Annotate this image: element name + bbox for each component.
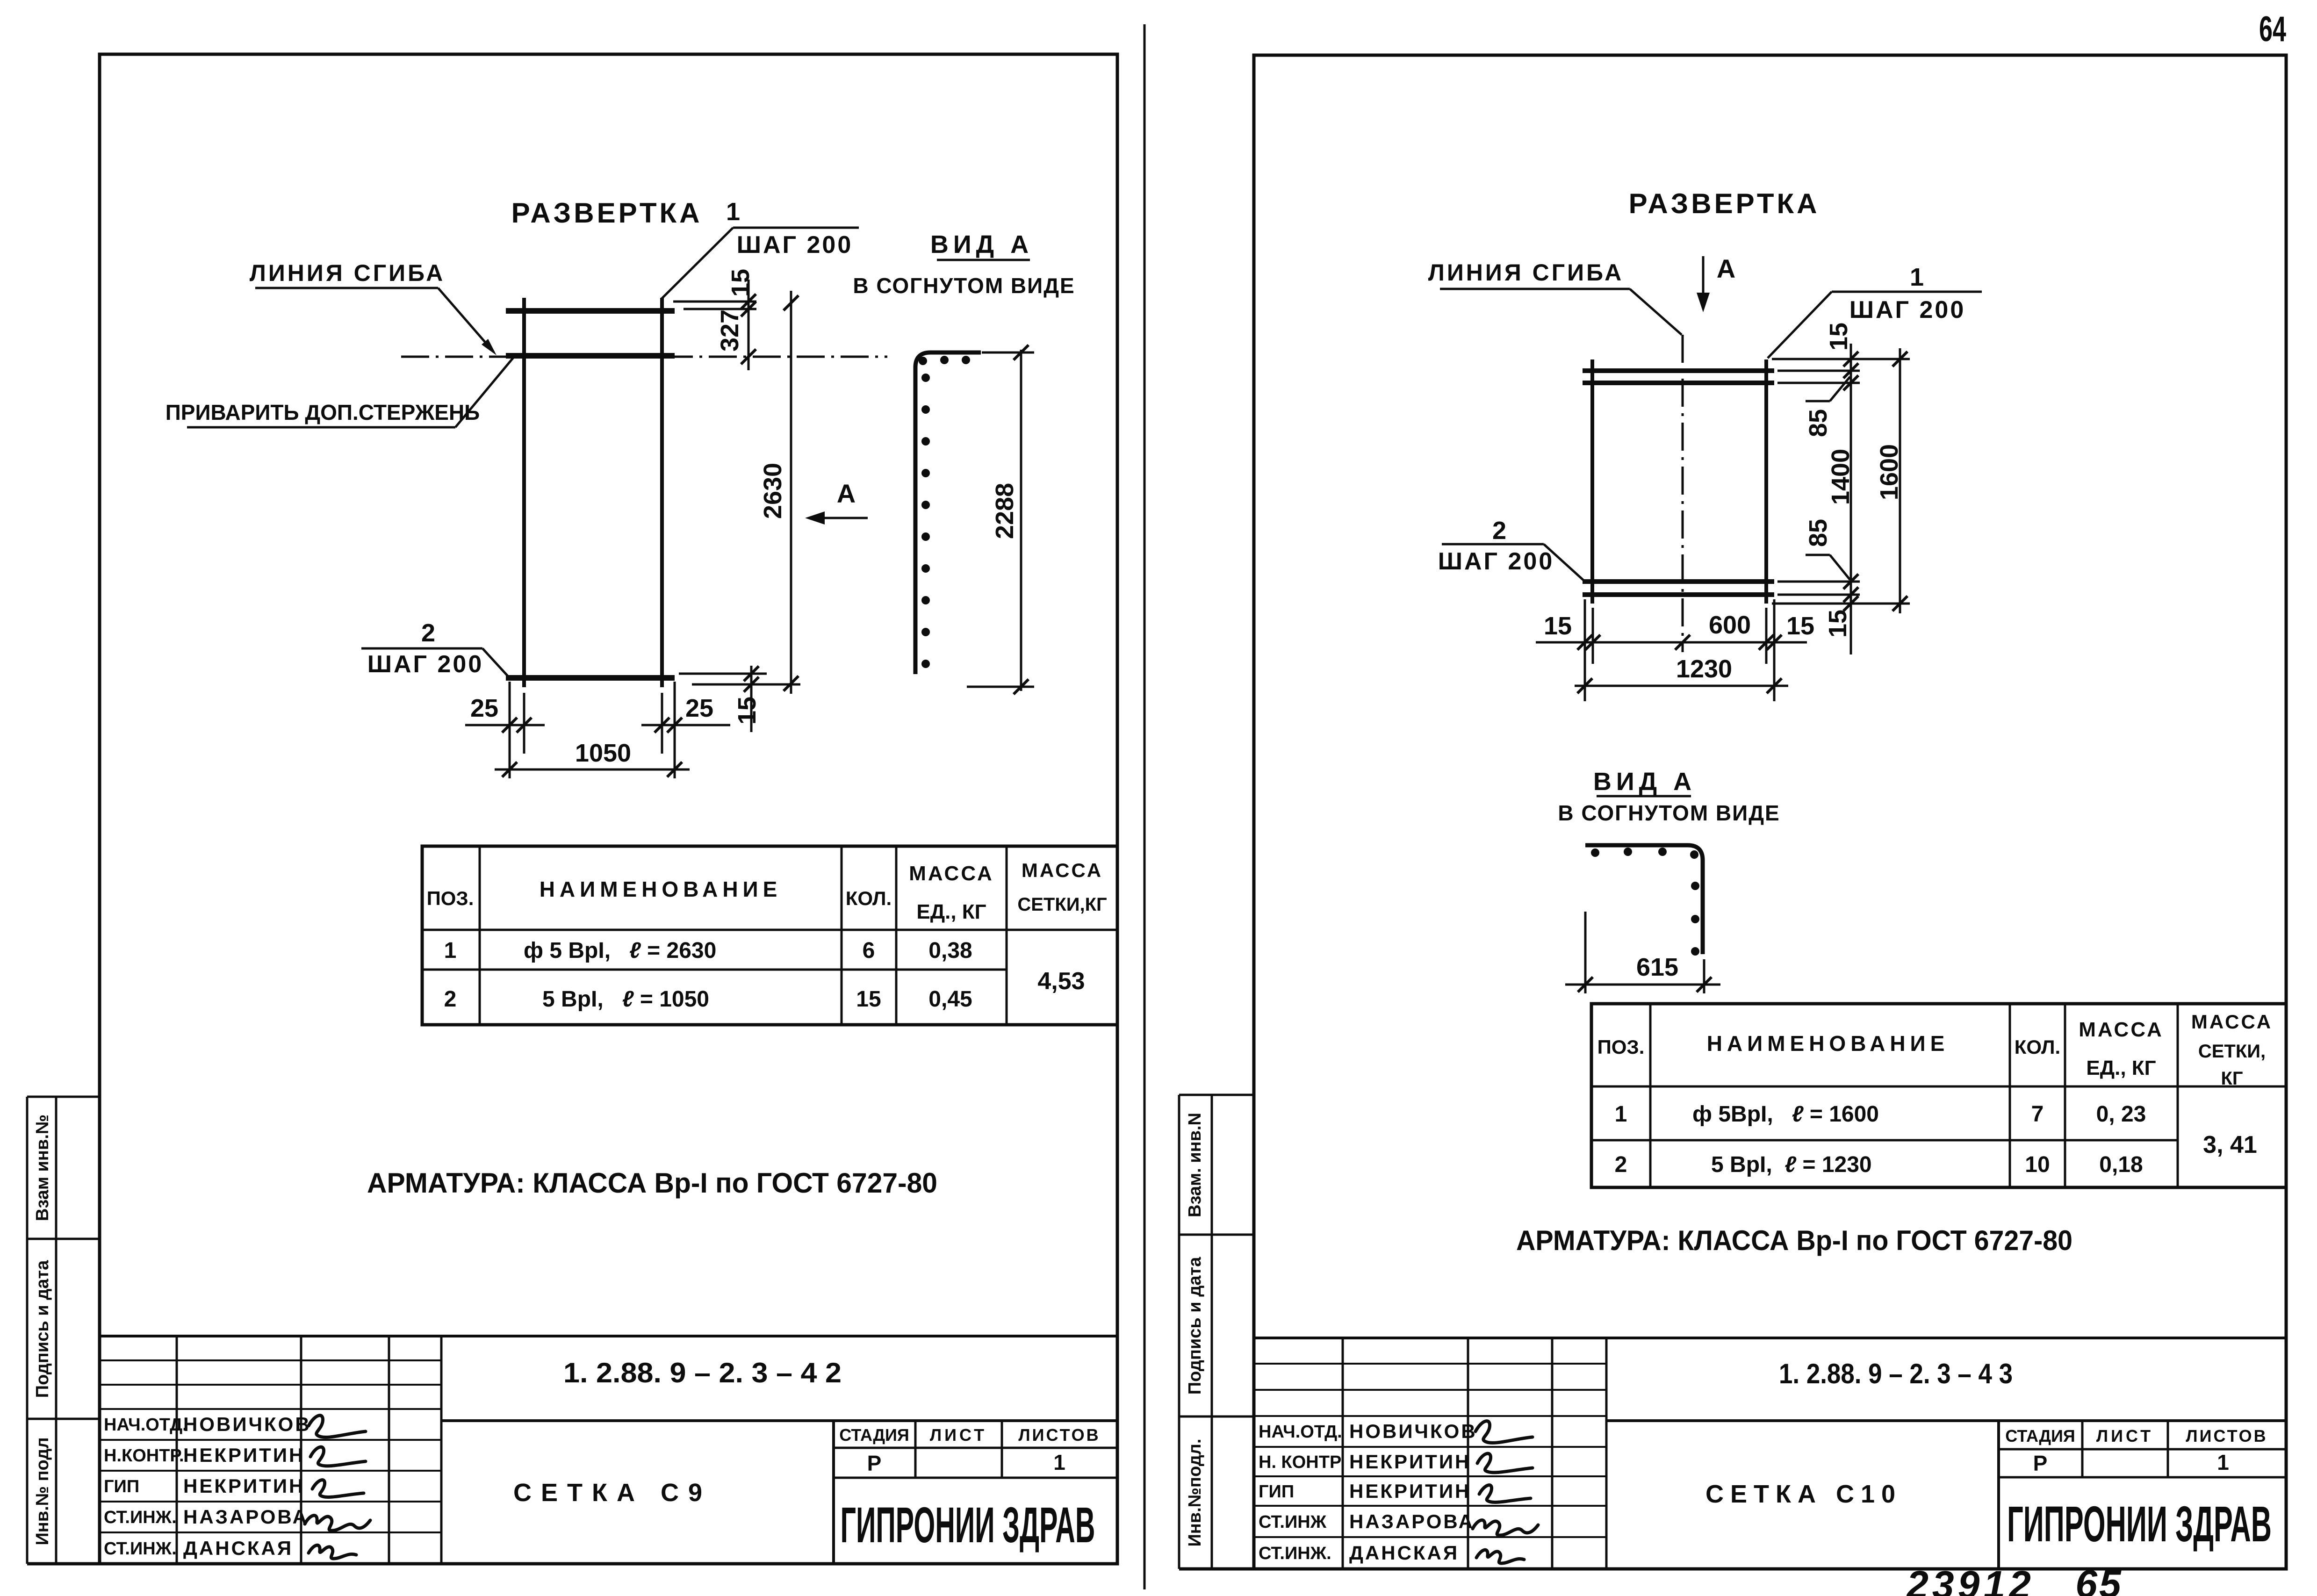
svg-text:В СОГНУТОМ ВИДЕ: В СОГНУТОМ ВИДЕ xyxy=(853,273,1075,298)
sheet1 tick 15 bottom a xyxy=(744,666,759,681)
svg-text:СТ.ИНЖ.: СТ.ИНЖ. xyxy=(104,1539,177,1559)
svg-text:РАЗВЕРТКА: РАЗВЕРТКА xyxy=(1629,188,1820,219)
sheet2 ext rod right down xyxy=(1765,608,1768,664)
svg-text:ЕД., КГ: ЕД., КГ xyxy=(2086,1057,2156,1079)
svg-text:ЛИСТОВ: ЛИСТОВ xyxy=(1018,1425,1100,1445)
sheet2 chain tick y1272 xyxy=(1843,587,1858,602)
svg-text:7: 7 xyxy=(2031,1102,2044,1127)
sheet 2 frame xyxy=(1254,55,2286,1569)
sheet2 bottom tick x3778 xyxy=(1759,635,1774,650)
sheet2 sidebar top line xyxy=(1179,1094,1254,1096)
svg-text:600: 600 xyxy=(1709,611,1751,639)
sheet1 tick 15 top b xyxy=(741,302,756,316)
sheet1 mesh bar pos.2 bottom xyxy=(506,675,675,681)
svg-text:Подпись и дата: Подпись и дата xyxy=(1185,1257,1205,1395)
svg-text:НАЧ.ОТД.: НАЧ.ОТД. xyxy=(104,1415,187,1435)
sheet2 signature Новичков xyxy=(1475,1421,1533,1443)
svg-text:64: 64 xyxy=(2259,9,2286,49)
sheet2 table row line xyxy=(1591,1139,2178,1142)
sheet2 ext bar-end left down xyxy=(1584,599,1586,701)
svg-text:НЕКРИТИН: НЕКРИТИН xyxy=(183,1444,305,1466)
sheet1 titleblock values row bottom xyxy=(834,1477,1117,1479)
sheet1 Вид А underline xyxy=(937,259,1030,261)
sheet1 titleblock row line y3278 xyxy=(100,1531,441,1533)
svg-text:ГИП: ГИП xyxy=(104,1477,139,1496)
sheet1 tick 25L a xyxy=(502,718,517,733)
sheet2 ext bar bottom a xyxy=(1777,581,1860,583)
sheet2 titleblock row line y3221 xyxy=(1254,1505,1606,1507)
svg-text:2630: 2630 xyxy=(759,463,787,519)
sheet2 titleblock top line xyxy=(1254,1337,2286,1339)
sheet1 dim line 25 left xyxy=(465,724,545,726)
sheet2 titleblock стадия header bottom xyxy=(1999,1448,2286,1451)
sheet1 titleblock col лист/листов xyxy=(1001,1421,1003,1478)
sheet1 titleblock row line y3014 xyxy=(100,1408,441,1410)
sheet2 titleblock col line x3320 xyxy=(1551,1338,1554,1569)
svg-text:15: 15 xyxy=(733,697,761,725)
sheet2 table col Кол xyxy=(2064,1004,2066,1187)
sheet2 ext 615 left xyxy=(1584,912,1587,993)
sheet1 signature Данская xyxy=(309,1545,356,1559)
sheet2 chain tick y1291 xyxy=(1843,596,1858,611)
sheet2 view arrow A head xyxy=(1697,293,1710,312)
svg-text:МАССА: МАССА xyxy=(909,862,994,885)
sheet2 titleblock row line y3158 xyxy=(1254,1475,1606,1477)
svg-text:65: 65 xyxy=(2075,1562,2123,1596)
sheet1 titleblock col line x644 xyxy=(300,1336,302,1564)
svg-text:15: 15 xyxy=(1825,323,1853,351)
svg-text:ГИП: ГИП xyxy=(1259,1482,1294,1502)
svg-text:Н.КОНТР.: Н.КОНТР. xyxy=(104,1446,184,1466)
svg-text:85: 85 xyxy=(1804,409,1832,437)
sheet1 titleblock row line y3212 xyxy=(100,1501,441,1503)
svg-text:1050: 1050 xyxy=(575,739,631,767)
sheet2 bottom tick x3407 xyxy=(1585,635,1600,650)
svg-text:НОВИЧКОВ: НОВИЧКОВ xyxy=(1349,1420,1477,1442)
svg-text:Н. КОНТР: Н. КОНТР xyxy=(1259,1452,1341,1472)
svg-text:0,18: 0,18 xyxy=(2099,1152,2143,1177)
svg-text:ВИД А: ВИД А xyxy=(1593,768,1696,796)
sheet1 приварить leader diagonal xyxy=(455,358,513,427)
sheet2 mesh bar pos.1 top b xyxy=(1583,381,1774,385)
sheet2 bent profile xyxy=(1585,845,1703,954)
sheet2 signature Некритин xyxy=(1479,1485,1531,1503)
sheet1 titleblock row line y3146 xyxy=(100,1470,441,1472)
svg-text:ШАГ 200: ШАГ 200 xyxy=(1438,548,1554,575)
svg-text:15: 15 xyxy=(1544,612,1572,640)
sheet2 ext rod bottom xyxy=(1772,603,1910,605)
svg-text:ШАГ 200: ШАГ 200 xyxy=(737,231,853,259)
sheet2 tick 1600 bottom xyxy=(1892,596,1907,611)
sheet1 titleblock top line xyxy=(100,1335,1117,1337)
svg-text:ДАНСКАЯ: ДАНСКАЯ xyxy=(1349,1542,1459,1564)
svg-text:ГИПРОНИИ ЗДРАВ: ГИПРОНИИ ЗДРАВ xyxy=(2007,1495,2272,1552)
svg-text:КГ: КГ xyxy=(2221,1068,2243,1089)
svg-text:23912: 23912 xyxy=(1906,1563,2035,1596)
sheet1 mesh bar pos.2 fold xyxy=(506,353,675,359)
svg-text:15: 15 xyxy=(1786,612,1814,640)
svg-text:ГИПРОНИИ ЗДРАВ: ГИПРОНИИ ЗДРАВ xyxy=(841,1496,1095,1553)
sheet2 ext bar top a xyxy=(1777,370,1860,372)
sheet2 pos.2 callout diagonal xyxy=(1544,544,1584,581)
sheet1 tick 2630 top xyxy=(784,295,799,310)
svg-text:НАИМЕНОВАНИЕ: НАИМЕНОВАНИЕ xyxy=(1707,1031,1950,1056)
sheet1 signature Назарова xyxy=(305,1516,370,1531)
svg-text:СЕТКИ,КГ: СЕТКИ,КГ xyxy=(1017,894,1107,915)
sheet2 mesh rod pos.2 left xyxy=(1590,359,1594,604)
svg-text:НОВИЧКОВ: НОВИЧКОВ xyxy=(183,1413,311,1435)
svg-text:КОЛ.: КОЛ. xyxy=(2015,1036,2060,1058)
sheet2 bottom tick x3795 xyxy=(1767,635,1782,650)
svg-text:Р: Р xyxy=(2033,1451,2048,1475)
sheet2 sidebar bottom line xyxy=(1179,1567,1254,1571)
svg-text:1: 1 xyxy=(1615,1102,1627,1127)
svg-text:2: 2 xyxy=(421,619,435,647)
sheet2 pos.2 callout line xyxy=(1442,543,1544,546)
sheet1 mesh rod pos.1 right xyxy=(660,298,664,687)
sheet1 signature Некритин xyxy=(310,1447,366,1466)
sheet1 table col Наименование xyxy=(841,846,843,1025)
sheet2 85 top label line xyxy=(1806,400,1830,403)
svg-text:10: 10 xyxy=(2025,1152,2050,1177)
sheet2 dim line 1600 xyxy=(1899,348,1901,613)
sheet1 ext bar-end right down xyxy=(674,682,676,778)
sheet2 85 bottom label line xyxy=(1806,554,1830,556)
svg-text:0, 23: 0, 23 xyxy=(2096,1102,2146,1127)
sheet1 titleblock стадия header bottom xyxy=(834,1447,1117,1449)
sheet2 tick 1600 top xyxy=(1892,352,1907,367)
sheet1 bent profile dots (rod cross-sections) xyxy=(919,357,927,365)
sheet1 tick 2630 bottom xyxy=(784,676,799,691)
sheet1 parts table outer xyxy=(422,846,1117,1025)
svg-text:ПОЗ.: ПОЗ. xyxy=(427,887,474,909)
sheet2 chain tick y793 xyxy=(1843,363,1858,378)
sheet1 dim line 25 right xyxy=(641,724,730,726)
svg-text:СЕТКА С9: СЕТКА С9 xyxy=(513,1479,712,1507)
sheet2 signature Данская xyxy=(1476,1550,1524,1563)
sheet2 titleblock values row bottom xyxy=(1999,1476,2286,1479)
svg-text:0,45: 0,45 xyxy=(928,987,972,1012)
svg-text:КОЛ.: КОЛ. xyxy=(846,887,892,909)
sheet2 titleblock col стадия/лист xyxy=(2081,1421,2084,1477)
svg-text:НАЧ.ОТД.: НАЧ.ОТД. xyxy=(1259,1422,1342,1442)
sheet2 titleblock col line x3436 xyxy=(1605,1338,1608,1569)
sheet1 table header line xyxy=(422,929,1117,931)
sheet1 signature Новичков xyxy=(309,1416,366,1438)
sheet2 titleblock row line y3288 xyxy=(1254,1536,1606,1538)
sheet2 signature Назарова xyxy=(1473,1520,1538,1535)
sheet2 линия сгиба underline xyxy=(1440,288,1630,290)
sheet2 pos.1 callout diagonal xyxy=(1768,292,1832,358)
sheet1 view arrow A line xyxy=(814,517,868,519)
sheet2 titleblock row line y2917 xyxy=(1254,1363,1606,1365)
sheet2 titleblock row line y3095 xyxy=(1254,1446,1606,1448)
svg-text:4,53: 4,53 xyxy=(1037,968,1085,995)
svg-text:85: 85 xyxy=(1804,519,1832,547)
svg-text:15: 15 xyxy=(856,987,881,1012)
sheet1 dim line 2288 xyxy=(1020,350,1022,691)
svg-text:1: 1 xyxy=(726,198,740,226)
sheet2 titleblock doc cell bottom xyxy=(1606,1419,2286,1422)
sheet2 bottom tick x3599 xyxy=(1675,635,1690,650)
svg-text:15: 15 xyxy=(727,269,755,297)
svg-text:5 ВрI, ℓ = 1050: 5 ВрI, ℓ = 1050 xyxy=(542,987,709,1012)
sheet1 ext line bottom bar xyxy=(679,673,767,675)
sheet1 view arrow A head xyxy=(805,511,825,525)
svg-text:ШАГ 200: ШАГ 200 xyxy=(367,651,484,678)
sheet2 table header line xyxy=(1591,1086,2286,1088)
svg-text:СТАДИЯ: СТАДИЯ xyxy=(2005,1426,2075,1445)
sheet1 dim line 1050 xyxy=(495,769,690,771)
sheet1 ext rod left down xyxy=(523,693,525,754)
sheet1 pos.1 callout line xyxy=(733,227,859,229)
svg-text:5 ВрI, ℓ = 1230: 5 ВрI, ℓ = 1230 xyxy=(1711,1152,1872,1177)
sheet1 ext line rod top xyxy=(673,301,756,303)
sheet1 titleblock col line x944 xyxy=(440,1336,443,1564)
svg-text:ПРИВАРИТЬ ДОП.СТЕРЖЕНЬ: ПРИВАРИТЬ ДОП.СТЕРЖЕНЬ xyxy=(165,400,480,424)
sheet1 titleblock doc cell bottom xyxy=(441,1419,1117,1422)
svg-text:АРМАТУРА: КЛАССА Вр-I по ГОСТ: АРМАТУРА: КЛАССА Вр-I по ГОСТ 6727-80 xyxy=(367,1167,937,1199)
sheet2 85 bottom leader xyxy=(1830,555,1850,580)
sheet1 sidebar divider 2 xyxy=(27,1418,100,1420)
sheet2 titleblock стадия-block left xyxy=(1997,1421,2000,1569)
svg-text:1: 1 xyxy=(2217,1450,2229,1474)
sheet2 bent profile dots (rod cross-sections) xyxy=(1591,848,1599,857)
sheet2 mesh bar pos.1 bottom a xyxy=(1583,579,1774,584)
sheet2 tick 615 a xyxy=(1578,977,1593,992)
svg-text:МАССА: МАССА xyxy=(2079,1018,2164,1041)
sheet2 tick 1230 b xyxy=(1767,678,1782,693)
sheet1 dim line 2630 xyxy=(790,291,792,694)
svg-text:ЛИНИЯ СГИБА: ЛИНИЯ СГИБА xyxy=(250,260,445,286)
sheet2 dim line 615 xyxy=(1565,984,1720,986)
sheet1 pos.2 callout line xyxy=(361,647,482,650)
sheet1 ext bar-end left down xyxy=(509,682,511,778)
svg-text:1: 1 xyxy=(1053,1450,1065,1474)
svg-text:ЕД., КГ: ЕД., КГ xyxy=(916,900,986,923)
svg-text:1400: 1400 xyxy=(1827,449,1855,505)
sheet1 pos.2 callout diagonal xyxy=(482,648,508,676)
sheet1 bent profile xyxy=(915,352,981,674)
sheet2 линия сгиба leader diagonal xyxy=(1630,289,1682,335)
sheet2 ext rod left down xyxy=(1592,608,1594,664)
svg-text:СЕТКА С10: СЕТКА С10 xyxy=(1705,1480,1902,1508)
sheet1 dim line 15/327 xyxy=(748,280,750,370)
sheet1 ext line top bar xyxy=(684,308,756,310)
sheet1 ext line rod bottom xyxy=(692,683,800,686)
sheet2 parts table outer xyxy=(1591,1004,2286,1187)
sheet1 fold centerline dash-dot xyxy=(401,356,887,358)
sheet2 titleblock col line x3140 xyxy=(1467,1338,1469,1569)
sheet1 pos.1 callout diagonal xyxy=(661,228,733,299)
svg-text:ДАНСКАЯ: ДАНСКАЯ xyxy=(183,1537,293,1559)
sheet1 tick 25L b xyxy=(517,718,532,733)
sheet2 sidebar divider 2 xyxy=(1179,1416,1254,1418)
sheet2 table col Масса ед xyxy=(2177,1004,2179,1187)
sheet1 table row line xyxy=(422,969,1007,971)
sheet2 ext bar top b xyxy=(1777,382,1860,384)
svg-text:ПОЗ.: ПОЗ. xyxy=(1597,1036,1645,1058)
page divider line xyxy=(1144,24,1146,1589)
sheet1 dim line 15 bottom xyxy=(750,666,753,732)
sheet1 ext 2288 bottom xyxy=(967,686,1034,688)
svg-text:6: 6 xyxy=(863,938,875,963)
svg-text:1. 2.88. 9 – 2. 3 – 4 3: 1. 2.88. 9 – 2. 3 – 4 3 xyxy=(1779,1358,2013,1389)
sheet2 ext rod top xyxy=(1772,358,1910,360)
sheet1 titleblock col стадия/лист xyxy=(914,1421,917,1478)
sheet2 table col Поз xyxy=(1649,1004,1652,1187)
svg-text:1600: 1600 xyxy=(1875,444,1903,500)
sheet1 sidebar bottom line xyxy=(27,1562,100,1566)
sheet2 table col Наименование xyxy=(2009,1004,2011,1187)
sheet2 sidebar divider 1 xyxy=(1179,1234,1254,1236)
sheet1 table col Поз xyxy=(479,846,481,1025)
sheet2 Вид А underline xyxy=(1597,795,1691,798)
sheet2 mesh bar pos.1 bottom b xyxy=(1583,592,1774,597)
svg-text:В СОГНУТОМ ВИДЕ: В СОГНУТОМ ВИДЕ xyxy=(1558,801,1780,825)
svg-text:НАЗАРОВА: НАЗАРОВА xyxy=(183,1506,309,1528)
svg-text:Взам. инв.N: Взам. инв.N xyxy=(1185,1113,1205,1217)
sheet1 tick 15 bottom b xyxy=(744,677,759,692)
svg-text:СТ.ИНЖ.: СТ.ИНЖ. xyxy=(104,1508,177,1527)
sheet2 titleblock col лист/листов xyxy=(2167,1421,2169,1477)
svg-text:МАССА: МАССА xyxy=(1022,859,1103,881)
svg-text:2: 2 xyxy=(1492,517,1506,545)
sheet1 tick 1050 b xyxy=(667,762,682,777)
svg-text:Взам инв.№: Взам инв.№ xyxy=(33,1114,52,1221)
sheet1 tick 25R b xyxy=(667,718,682,733)
svg-text:2: 2 xyxy=(444,987,457,1012)
svg-text:ШАГ 200: ШАГ 200 xyxy=(1849,296,1966,324)
svg-text:15: 15 xyxy=(1824,610,1852,638)
sheet2 titleblock col line x2872 xyxy=(1342,1338,1344,1569)
svg-text:АРМАТУРА: КЛАССА Вр-I по ГОСТ: АРМАТУРА: КЛАССА Вр-I по ГОСТ 6727-80 xyxy=(1516,1225,2072,1256)
sheet2 dim line bottom chain xyxy=(1536,641,1807,644)
sheet1 ext rod right down xyxy=(661,693,663,754)
svg-text:ЛИСТ: ЛИСТ xyxy=(930,1425,987,1445)
sheet1 tick 2288 bottom xyxy=(1014,679,1029,694)
svg-text:МАССА: МАССА xyxy=(2191,1011,2273,1033)
svg-text:327: 327 xyxy=(716,309,744,352)
svg-text:СТ.ИНЖ: СТ.ИНЖ xyxy=(1259,1512,1327,1532)
sheet2 titleblock row line y2973 xyxy=(1254,1389,1606,1391)
sheet2 dim line chain xyxy=(1850,344,1852,654)
sheet1 titleblock row line y3080 xyxy=(100,1439,441,1441)
sheet1 titleblock row line y2910 xyxy=(100,1359,441,1361)
sheet1 tick 2288 top xyxy=(1014,345,1029,360)
svg-text:ЛИНИЯ СГИБА: ЛИНИЯ СГИБА xyxy=(1428,259,1624,286)
sheet1 приварить underline xyxy=(187,426,455,429)
sheet2 fold centerline dash-dot xyxy=(1682,335,1684,652)
svg-text:ЛИСТ: ЛИСТ xyxy=(2096,1426,2153,1445)
sheet2 signature Некритин xyxy=(1477,1453,1533,1473)
svg-text:Инв.№подл.: Инв.№подл. xyxy=(1185,1438,1205,1546)
sheet2 sidebar inner divider xyxy=(1211,1095,1213,1569)
svg-text:ЛИСТОВ: ЛИСТОВ xyxy=(2186,1426,2267,1445)
sheet2 pos.1 callout line xyxy=(1832,291,1982,293)
sheet2 sidebar left edge xyxy=(1178,1095,1180,1569)
svg-text:А: А xyxy=(837,479,856,508)
sheet 1 frame xyxy=(100,54,1117,1564)
svg-text:НАЗАРОВА: НАЗАРОВА xyxy=(1349,1510,1475,1532)
svg-text:НЕКРИТИН: НЕКРИТИН xyxy=(183,1475,305,1497)
sheet2 titleblock row line y3029 xyxy=(1254,1415,1606,1417)
svg-text:Р: Р xyxy=(867,1451,882,1475)
sheet1 titleblock row line y2962 xyxy=(100,1384,441,1386)
sheet1 tick 327 xyxy=(741,349,756,364)
sheet1 mesh rod pos.1 left xyxy=(522,298,526,687)
sheet1 sidebar inner divider xyxy=(55,1097,58,1564)
sheet1 signature Некритин xyxy=(312,1480,364,1497)
svg-text:1: 1 xyxy=(1910,263,1924,291)
sheet1 titleblock col line x378 xyxy=(176,1336,178,1564)
svg-text:НЕКРИТИН: НЕКРИТИН xyxy=(1349,1480,1471,1502)
svg-text:1. 2.88. 9 – 2. 3 – 4 2: 1. 2.88. 9 – 2. 3 – 4 2 xyxy=(563,1357,842,1388)
sheet2 ext bar bottom b xyxy=(1777,594,1860,596)
sheet1 tick 15 top a xyxy=(741,294,756,309)
svg-text:А: А xyxy=(1717,254,1735,283)
sheet2 85 top leader xyxy=(1830,377,1850,401)
sheet2 bottom tick x3390 xyxy=(1577,635,1592,650)
sheet2 chain tick y1244 xyxy=(1843,574,1858,589)
sheet1 titleblock стадия-block left xyxy=(832,1421,835,1564)
sheet1 table col Масса ед xyxy=(1006,846,1008,1025)
sheet1 titleblock col line x832 xyxy=(388,1336,390,1564)
sheet1 sidebar divider 1 xyxy=(27,1238,100,1240)
svg-text:25: 25 xyxy=(470,694,498,722)
svg-text:РАЗВЕРТКА: РАЗВЕРТКА xyxy=(511,197,703,229)
svg-text:СТАДИЯ: СТАДИЯ xyxy=(839,1425,909,1445)
svg-text:1230: 1230 xyxy=(1676,655,1732,683)
svg-text:НАИМЕНОВАНИЕ: НАИМЕНОВАНИЕ xyxy=(540,877,782,901)
sheet1 линия сгиба arrowhead xyxy=(482,339,496,355)
sheet2 chain tick y819 xyxy=(1843,375,1858,390)
sheet1 линия сгиба leader diagonal xyxy=(438,288,494,352)
svg-text:2: 2 xyxy=(1615,1152,1627,1177)
svg-text:Инв.№ подл: Инв.№ подл xyxy=(33,1437,52,1545)
svg-text:615: 615 xyxy=(1636,953,1678,981)
sheet1 sidebar top line xyxy=(27,1096,100,1098)
sheet2 dim line 1230 xyxy=(1575,685,1788,687)
sheet1 sidebar left edge xyxy=(26,1097,29,1564)
svg-text:25: 25 xyxy=(685,694,713,722)
svg-text:СТ.ИНЖ.: СТ.ИНЖ. xyxy=(1259,1544,1331,1563)
sheet1 ext 2288 top xyxy=(982,352,1034,354)
svg-text:ВИД А: ВИД А xyxy=(930,230,1033,259)
sheet2 tick 615 b xyxy=(1697,977,1712,992)
sheet2 mesh rod pos.2 right xyxy=(1764,359,1768,604)
svg-text:НЕКРИТИН: НЕКРИТИН xyxy=(1349,1451,1471,1473)
sheet2 tick 1230 a xyxy=(1577,678,1592,693)
svg-text:СЕТКИ,: СЕТКИ, xyxy=(2198,1041,2266,1062)
sheet1 table col Кол xyxy=(895,846,898,1025)
sheet2 view arrow A line xyxy=(1702,256,1705,299)
sheet2 mesh bar pos.1 top a xyxy=(1583,368,1774,373)
svg-text:ф 5 ВрI, ℓ = 2630: ф 5 ВрI, ℓ = 2630 xyxy=(524,938,716,963)
svg-text:ф 5ВрI, ℓ = 1600: ф 5ВрI, ℓ = 1600 xyxy=(1692,1102,1879,1127)
sheet1 линия сгиба underline xyxy=(255,287,438,289)
sheet1 tick 1050 a xyxy=(502,762,517,777)
svg-text:1: 1 xyxy=(444,938,457,963)
sheet2 ext 615 right xyxy=(1703,959,1705,993)
sheet1 tick 25R a xyxy=(655,718,669,733)
svg-text:3, 41: 3, 41 xyxy=(2203,1131,2257,1158)
sheet2 ext bar-end right down xyxy=(1773,599,1776,701)
svg-text:0,38: 0,38 xyxy=(928,938,972,963)
svg-text:2288: 2288 xyxy=(991,483,1019,539)
sheet2 chain tick y768 xyxy=(1843,352,1858,367)
sheet1 mesh bar pos.2 top xyxy=(506,308,675,314)
